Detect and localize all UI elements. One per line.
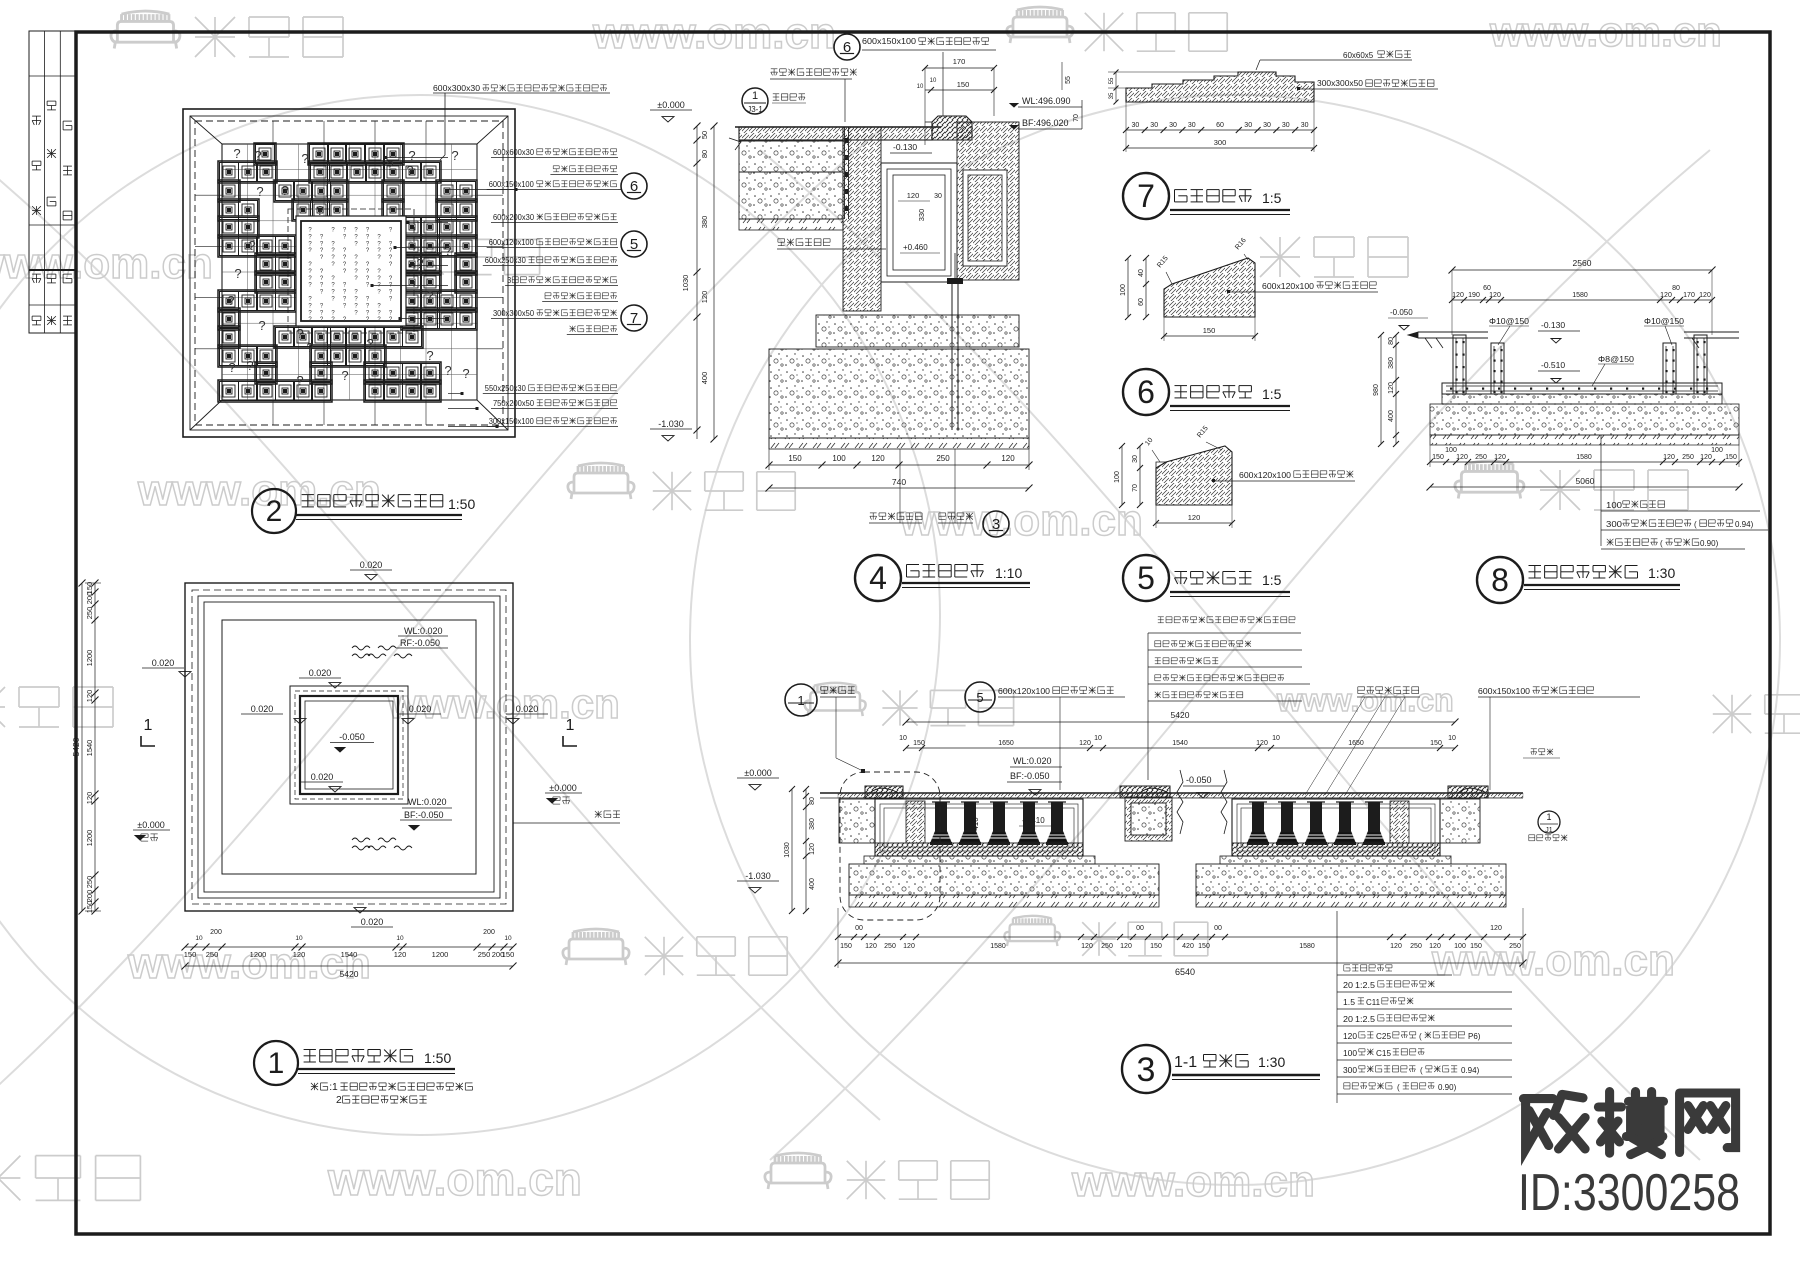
svg-text:10: 10 — [1448, 735, 1456, 742]
svg-text:1: 1 — [566, 717, 575, 734]
svg-text:6540: 6540 — [1175, 967, 1195, 977]
svg-text:170: 170 — [1683, 292, 1695, 299]
sec4 left ground hatch — [739, 219, 843, 230]
svg-text:10: 10 — [899, 735, 907, 742]
sec4 mid foundation — [816, 315, 1019, 347]
svg-text:2560: 2560 — [1573, 258, 1592, 268]
svg-text:380: 380 — [809, 818, 816, 830]
svg-text:Φ10@150: Φ10@150 — [1489, 316, 1529, 326]
svg-text:BF:496.020: BF:496.020 — [1022, 118, 1069, 128]
svg-text:30: 30 — [1301, 122, 1309, 129]
title 8 circle — [1477, 557, 1523, 603]
svg-text:400: 400 — [809, 878, 816, 890]
svg-text:120: 120 — [1490, 925, 1502, 932]
svg-text:1580: 1580 — [990, 943, 1006, 950]
svg-text:250: 250 — [1682, 454, 1694, 461]
svg-text:?: ? — [256, 184, 263, 199]
svg-text:120: 120 — [1256, 740, 1268, 747]
svg-text:120: 120 — [1700, 454, 1712, 461]
plan1 left dim chain — [94, 583, 96, 911]
svg-text:300: 300 — [1214, 138, 1227, 147]
svg-text:C25: C25 — [1376, 1032, 1392, 1041]
svg-text:0.020: 0.020 — [409, 704, 432, 714]
sec4 bottom labels — [872, 513, 874, 520]
svg-text:0.020: 0.020 — [152, 658, 175, 668]
svg-text:30: 30 — [1282, 122, 1290, 129]
sec3 left channel — [875, 799, 1083, 856]
sec3 callout 5 — [965, 682, 995, 712]
svg-text:10: 10 — [1272, 735, 1280, 742]
svg-text:35: 35 — [1109, 92, 1115, 99]
sec4 bottom dim chain — [769, 464, 1029, 466]
svg-text:1:50: 1:50 — [424, 1050, 451, 1066]
sec3 kerb blocks — [865, 786, 903, 798]
svg-text:1540: 1540 — [85, 740, 94, 757]
rebar total 5060 — [1430, 486, 1739, 488]
svg-text:-0.410: -0.410 — [1022, 816, 1045, 825]
stone7 dims — [1126, 129, 1314, 131]
svg-text:0.90): 0.90) — [1438, 1083, 1457, 1092]
svg-text:C11: C11 — [1366, 998, 1381, 1007]
svg-text:1:5: 1:5 — [1262, 572, 1282, 588]
svg-text:420: 420 — [1182, 943, 1194, 950]
watermark big circle left — [0, 95, 940, 1135]
svg-text:150: 150 — [1430, 740, 1442, 747]
svg-text:1200: 1200 — [85, 650, 94, 667]
svg-text:60x60x5: 60x60x5 — [1343, 51, 1374, 60]
svg-text:www.om.cn: www.om.cn — [1071, 1157, 1315, 1206]
svg-text:600x150x100: 600x150x100 — [862, 36, 916, 46]
svg-text:120: 120 — [1663, 454, 1675, 461]
svg-text:1200: 1200 — [250, 950, 267, 959]
svg-text:?: ? — [234, 266, 241, 281]
sec3 dashed callout bubble — [840, 772, 940, 920]
svg-text:?: ? — [254, 148, 261, 163]
title 2 circle — [252, 489, 296, 533]
svg-text:1540: 1540 — [341, 950, 358, 959]
svg-text:10: 10 — [930, 78, 937, 84]
svg-text:0.90): 0.90) — [1700, 539, 1719, 548]
svg-text:1:10: 1:10 — [995, 565, 1022, 581]
title 5 circle — [1123, 555, 1169, 601]
svg-text:1030: 1030 — [681, 275, 690, 292]
svg-text:120: 120 — [1699, 292, 1711, 299]
svg-text:0.020: 0.020 — [516, 704, 539, 714]
svg-text:120: 120 — [907, 191, 920, 200]
svg-text:0.020: 0.020 — [360, 560, 383, 570]
svg-text:BF:-0.050: BF:-0.050 — [1010, 771, 1050, 781]
svg-text:+0.460: +0.460 — [903, 243, 928, 252]
svg-text:150: 150 — [1198, 943, 1210, 950]
svg-text:1: 1 — [268, 1047, 285, 1080]
sec4 mid wall — [843, 127, 881, 311]
plan1 total 5420 bottom — [185, 965, 513, 967]
svg-text:600x200x30: 600x200x30 — [493, 213, 535, 222]
svg-text:±0.000: ±0.000 — [137, 820, 164, 830]
watermark big circle right — [690, 95, 1780, 1185]
svg-text:1: 1 — [144, 717, 153, 734]
svg-text:1580: 1580 — [1572, 292, 1588, 299]
svg-text:120: 120 — [1388, 382, 1395, 394]
svg-text:WL:0.020: WL:0.020 — [1013, 756, 1052, 766]
svg-text:30: 30 — [1132, 122, 1140, 129]
sec4 joint label — [773, 69, 775, 76]
sec3 dim row — [906, 747, 1455, 749]
svg-text:?: ? — [451, 148, 458, 163]
sec3 left edge concrete — [839, 799, 875, 843]
svg-text:?: ? — [406, 163, 413, 178]
paving ref circle 7 — [621, 305, 647, 331]
sec3 base strip left — [864, 856, 1095, 864]
svg-text:20: 20 — [1343, 1015, 1354, 1024]
sec4 big foundation — [769, 349, 1029, 438]
svg-text:4: 4 — [869, 560, 887, 596]
svg-text:250: 250 — [884, 943, 896, 950]
watermark row1 — [111, 11, 180, 48]
svg-text:100: 100 — [1445, 447, 1457, 454]
sec4 top circle 6 — [834, 34, 860, 60]
sec4 left concrete — [739, 141, 843, 219]
svg-text:600x250x30: 600x250x30 — [485, 256, 527, 265]
svg-text:00: 00 — [1214, 925, 1222, 932]
svg-text:www.om.cn: www.om.cn — [0, 239, 213, 288]
svg-text:300x300x50: 300x300x50 — [493, 309, 535, 318]
svg-text::1: :1 — [329, 1082, 338, 1093]
svg-text:6: 6 — [1137, 374, 1155, 410]
svg-text:?: ? — [426, 348, 433, 363]
sec3 footing right — [1196, 864, 1506, 895]
stone6 dims — [1145, 258, 1147, 317]
svg-text:150: 150 — [502, 950, 515, 959]
svg-text:30: 30 — [1244, 122, 1252, 129]
svg-text:(: ( — [1694, 520, 1697, 529]
stone7 left dims — [1115, 72, 1117, 102]
sec3 ground left — [849, 895, 1159, 907]
rebar footing — [1442, 394, 1722, 404]
svg-text:WL:496.090: WL:496.090 — [1022, 96, 1071, 106]
sec4 top dims — [925, 67, 994, 69]
sec3 bottom dim chain — [838, 936, 1523, 938]
svg-text:5420: 5420 — [340, 969, 359, 979]
svg-text:120: 120 — [1456, 454, 1468, 461]
svg-text:150: 150 — [85, 901, 94, 914]
sec4 channel — [881, 163, 957, 282]
svg-text:380: 380 — [700, 216, 709, 229]
svg-text:250: 250 — [85, 876, 94, 889]
svg-text:J1: J1 — [1545, 827, 1553, 834]
svg-text:300x300x50: 300x300x50 — [1317, 79, 1364, 88]
paving tiles — [254, 143, 276, 165]
svg-text:600x120x100: 600x120x100 — [1262, 282, 1315, 291]
svg-text:2: 2 — [266, 495, 283, 528]
svg-text:150: 150 — [957, 80, 970, 89]
plan1 pond wall — [300, 696, 398, 794]
svg-text:150: 150 — [184, 950, 197, 959]
svg-text:120: 120 — [1343, 1032, 1358, 1041]
title 7 text — [1175, 189, 1188, 191]
svg-text:www.om.cn: www.om.cn — [137, 466, 381, 515]
svg-text:?: ? — [444, 363, 451, 378]
svg-text:120: 120 — [1660, 292, 1672, 299]
svg-text:250: 250 — [478, 950, 491, 959]
svg-text:250: 250 — [206, 950, 219, 959]
paving centre plaque — [288, 209, 414, 333]
rebar left vert dims — [1395, 335, 1397, 444]
svg-text:250: 250 — [85, 607, 94, 620]
svg-text:250: 250 — [1101, 943, 1113, 950]
svg-text:1030: 1030 — [784, 842, 791, 858]
sec3 support label — [1357, 687, 1359, 694]
svg-text:?: ? — [228, 360, 235, 375]
svg-text:120: 120 — [1489, 292, 1501, 299]
paving leaders to plan — [385, 157, 448, 159]
svg-text:7: 7 — [1137, 178, 1155, 214]
svg-text:70: 70 — [1132, 484, 1139, 492]
svg-text:Φ8@150: Φ8@150 — [1598, 354, 1634, 364]
svg-text:120: 120 — [293, 950, 306, 959]
svg-text:380: 380 — [1388, 357, 1395, 369]
svg-text:200: 200 — [85, 592, 94, 605]
sec3 left channel wall hatch — [906, 801, 925, 843]
svg-text:100: 100 — [1114, 471, 1121, 483]
plan1 outer — [185, 583, 513, 911]
svg-text:600x150x100: 600x150x100 — [489, 180, 535, 189]
sec4 callout 1 J3-1 — [742, 88, 768, 114]
svg-text:?: ? — [301, 151, 308, 166]
rebar right wing — [1684, 331, 1739, 333]
svg-text:0.020: 0.020 — [311, 772, 334, 782]
svg-text:1:2.5: 1:2.5 — [1355, 981, 1376, 990]
svg-text:250: 250 — [1410, 943, 1422, 950]
stone5 dims — [1139, 446, 1141, 505]
plan1 pond outer — [290, 686, 408, 804]
sec3 right channel — [1232, 799, 1440, 856]
stone5 profile — [1156, 446, 1232, 505]
svg-text:?: ? — [233, 146, 240, 161]
plan1 wavy water bottom — [352, 838, 370, 842]
title 6 text — [1175, 385, 1188, 387]
svg-text:0.020: 0.020 — [361, 917, 384, 927]
svg-text:20: 20 — [1343, 981, 1354, 990]
svg-text:BF:-0.050: BF:-0.050 — [404, 810, 444, 820]
title 2 text — [302, 494, 314, 496]
rebar dim row — [1452, 299, 1712, 301]
sec4 drain pipe — [951, 282, 953, 430]
svg-text:C15: C15 — [1376, 1049, 1392, 1058]
svg-text:1200: 1200 — [432, 950, 449, 959]
svg-text:?: ? — [296, 373, 303, 388]
plan1 inner rings — [198, 596, 500, 898]
sec3 callout 1 — [785, 684, 817, 716]
svg-text:(: ( — [1397, 1083, 1400, 1092]
svg-text:1:5: 1:5 — [1262, 190, 1282, 206]
svg-text:150: 150 — [913, 740, 925, 747]
svg-text:120: 120 — [1120, 943, 1132, 950]
svg-text:300: 300 — [1343, 1066, 1358, 1075]
svg-text:60: 60 — [1483, 285, 1491, 292]
sec4 top slab — [739, 127, 932, 140]
title 1 text — [304, 1049, 316, 1051]
sec3 right edge concrete — [1440, 799, 1480, 843]
svg-text:600x600x30: 600x600x30 — [493, 148, 535, 157]
plan1 dashed — [192, 590, 506, 904]
svg-text:70: 70 — [1073, 114, 1080, 122]
sec3 middle pier — [1125, 797, 1172, 841]
sec3 paving line — [838, 792, 1523, 794]
svg-text:600x150x100: 600x150x100 — [1478, 686, 1530, 696]
svg-text:600x120x100: 600x120x100 — [1239, 471, 1292, 480]
paving grid — [247, 144, 249, 400]
svg-text:?: ? — [281, 183, 288, 198]
svg-text:5060: 5060 — [1576, 476, 1595, 486]
svg-text:-0.050: -0.050 — [339, 732, 365, 742]
svg-text:100: 100 — [1120, 284, 1127, 296]
svg-text:?: ? — [386, 158, 393, 173]
svg-text:30: 30 — [934, 193, 942, 200]
svg-text:120: 120 — [1494, 454, 1506, 461]
svg-text:?: ? — [248, 238, 255, 253]
svg-text:50: 50 — [700, 131, 709, 139]
sec3 break lines — [1177, 770, 1183, 834]
plan1 pool wall label — [595, 811, 602, 818]
title 4 circle — [855, 555, 901, 601]
sec3 dim 5420 — [906, 721, 1455, 723]
plan1 total 5420 left — [81, 583, 83, 911]
sec4 right vert dims — [1081, 100, 1083, 129]
svg-text:0.94): 0.94) — [1735, 520, 1754, 529]
sec3 right nozzles — [1252, 802, 1264, 832]
svg-text:150: 150 — [1432, 454, 1444, 461]
svg-text:1:2.5: 1:2.5 — [1355, 1015, 1376, 1024]
svg-text:100: 100 — [1454, 943, 1466, 950]
svg-text:?: ? — [366, 336, 373, 351]
sec3 paving stones bumps — [870, 788, 898, 793]
svg-text:00: 00 — [1136, 925, 1144, 932]
paving band dividers — [272, 121, 274, 144]
svg-text:1540: 1540 — [1172, 740, 1188, 747]
svg-text:?: ? — [306, 340, 313, 355]
svg-text:250: 250 — [1475, 454, 1487, 461]
sec3 top note line1 — [1158, 616, 1164, 618]
svg-text:150: 150 — [840, 943, 852, 950]
svg-text:150: 150 — [1470, 943, 1482, 950]
sec4 ground hatch bottom — [769, 438, 1029, 449]
svg-text:200: 200 — [483, 929, 495, 936]
sec4 expansion joint — [844, 127, 846, 219]
svg-text:120: 120 — [809, 843, 816, 855]
sec4 overflow label — [778, 238, 785, 240]
svg-text:±0.000: ±0.000 — [744, 768, 771, 778]
svg-text:?: ? — [296, 326, 303, 341]
svg-text:0.020: 0.020 — [309, 668, 332, 678]
svg-text:±0.000: ±0.000 — [549, 783, 576, 793]
svg-text:1: 1 — [1546, 812, 1551, 822]
title 3 circle — [1122, 1045, 1170, 1093]
sec4 right wall — [957, 122, 1019, 280]
svg-text:WL:0.020: WL:0.020 — [408, 797, 447, 807]
svg-text:120: 120 — [865, 943, 877, 950]
svg-text:55: 55 — [1109, 77, 1115, 84]
svg-text:60: 60 — [1138, 298, 1145, 306]
svg-text:100: 100 — [1606, 501, 1623, 510]
svg-text:(: ( — [1419, 1032, 1422, 1041]
svg-text:120: 120 — [700, 291, 709, 304]
svg-text:www.om.cn: www.om.cn — [127, 939, 371, 988]
svg-text:170: 170 — [953, 57, 966, 66]
svg-text:150: 150 — [1203, 326, 1216, 335]
title 1 notes — [311, 1083, 318, 1090]
svg-text:120: 120 — [85, 690, 94, 703]
rebar walls — [1453, 335, 1466, 394]
rebar top dim 2560 — [1452, 269, 1712, 271]
svg-text:330: 330 — [917, 209, 926, 222]
svg-text:1: 1 — [797, 693, 804, 708]
svg-text:300x150x100: 300x150x100 — [489, 417, 535, 426]
svg-text:10: 10 — [195, 935, 203, 942]
svg-text:200: 200 — [210, 929, 222, 936]
svg-text:120: 120 — [394, 950, 407, 959]
svg-text:(: ( — [1420, 1066, 1423, 1075]
rebar left wing — [1418, 331, 1488, 333]
svg-text:30: 30 — [1169, 122, 1177, 129]
rebar ground hatch — [1430, 435, 1739, 445]
svg-text:-1.030: -1.030 — [658, 419, 684, 429]
svg-text:150: 150 — [788, 454, 802, 463]
title 4 text — [907, 564, 920, 566]
svg-text:5: 5 — [1137, 560, 1155, 596]
sec3 slab hatch right — [1232, 843, 1440, 856]
svg-text:550x250x30: 550x250x30 — [485, 384, 527, 393]
svg-text:10: 10 — [504, 935, 512, 942]
svg-text:1:30: 1:30 — [1258, 1054, 1285, 1070]
svg-text:200: 200 — [85, 890, 94, 903]
svg-text:?: ? — [227, 293, 234, 308]
rebar notes — [1600, 435, 1602, 546]
svg-text:80: 80 — [1388, 337, 1395, 345]
title 1 circle — [254, 1041, 298, 1085]
svg-text:400: 400 — [700, 372, 709, 385]
sec4 vert dim — [696, 126, 698, 439]
svg-text:120: 120 — [903, 943, 915, 950]
svg-text:55: 55 — [1065, 76, 1072, 84]
svg-text:2: 2 — [336, 1095, 342, 1106]
svg-text:400: 400 — [1388, 410, 1395, 422]
svg-text:1: 1 — [752, 90, 758, 102]
svg-text:740: 740 — [892, 477, 906, 487]
title 7 circle — [1123, 173, 1169, 219]
svg-text:750x200x50: 750x200x50 — [493, 399, 535, 408]
svg-text:120: 120 — [1081, 943, 1093, 950]
svg-text:?: ? — [416, 256, 423, 271]
svg-text:80: 80 — [809, 797, 816, 805]
sec4 kerb stone top right — [932, 116, 972, 140]
svg-text:www.om.cn: www.om.cn — [327, 1153, 582, 1205]
svg-text:40: 40 — [1138, 269, 1145, 277]
svg-text:-0.130: -0.130 — [893, 142, 917, 152]
svg-text:120: 120 — [1390, 943, 1402, 950]
svg-text:±0.000: ±0.000 — [657, 100, 684, 110]
svg-text:0.94): 0.94) — [1461, 1066, 1480, 1075]
svg-text:-1.030: -1.030 — [745, 871, 771, 881]
svg-text:-0.050: -0.050 — [1186, 775, 1212, 785]
svg-text:30: 30 — [1263, 122, 1271, 129]
sec3 left nozzles — [935, 802, 947, 832]
watermark row6 — [0, 1156, 20, 1201]
svg-text:10: 10 — [396, 935, 404, 942]
svg-text:410: 410 — [971, 817, 980, 831]
svg-text:3: 3 — [507, 276, 512, 285]
svg-text:30: 30 — [1150, 122, 1158, 129]
